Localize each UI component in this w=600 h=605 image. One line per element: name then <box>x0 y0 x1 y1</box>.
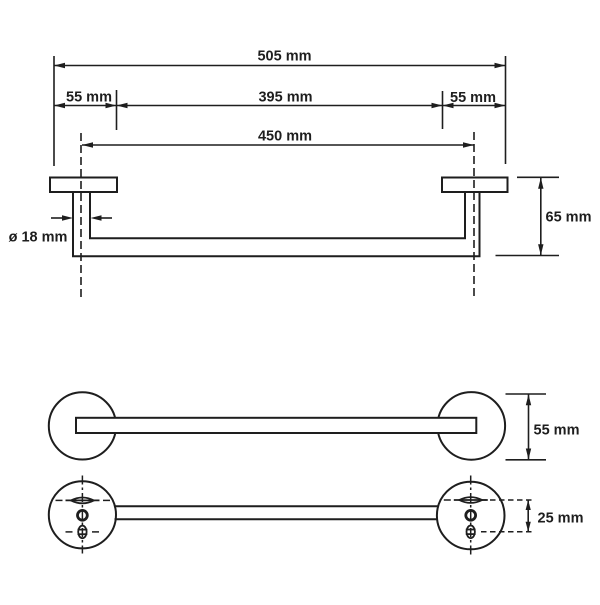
svg-text:55 mm: 55 mm <box>66 90 112 106</box>
svg-text:505 mm: 505 mm <box>257 49 311 65</box>
svg-text:395 mm: 395 mm <box>258 90 312 106</box>
svg-text:450 mm: 450 mm <box>258 129 312 145</box>
svg-text:25 mm: 25 mm <box>538 511 584 527</box>
svg-text:55 mm: 55 mm <box>450 90 496 106</box>
svg-text:55 mm: 55 mm <box>534 422 580 438</box>
svg-text:65 mm: 65 mm <box>546 209 592 225</box>
svg-text:ø 18 mm: ø 18 mm <box>9 230 68 246</box>
